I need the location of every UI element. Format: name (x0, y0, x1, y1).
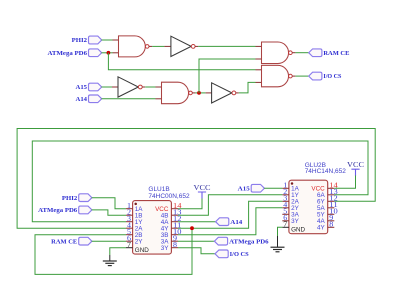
port A15 (middle) (238, 184, 265, 192)
svg-text:I/O CS: I/O CS (323, 74, 342, 80)
svg-text:RAM CE: RAM CE (323, 51, 349, 57)
svg-text:ATMega PD6: ATMega PD6 (229, 239, 269, 245)
wire U2A output to U1C input (198, 45, 255, 47)
wire net 2A to 6Y (outer loop) (17, 129, 375, 229)
wire ATMega PD6 branch to U1D input (108, 53, 255, 70)
wire U1C output to RAM CE port (295, 52, 308, 54)
ground (GLU1B) (103, 255, 117, 266)
port PHI2 (bottom) (62, 194, 92, 202)
junction on U1B output net (197, 91, 201, 95)
svg-text:PHI2: PHI2 (72, 38, 87, 44)
junction on 4Y net (190, 226, 194, 230)
NAND gate U1B (A15n, A14) (156, 82, 196, 104)
wire U2C output to U1D input (239, 82, 256, 93)
wire VCC to GLU1B pin 14 (178, 199, 202, 209)
inverter U2B (A15) (112, 77, 145, 97)
wire U1B output branch to U1C input (199, 59, 256, 93)
svg-text:3Y: 3Y (291, 218, 300, 225)
svg-text:2Y: 2Y (135, 239, 144, 246)
port I/O CS (middle) (215, 250, 249, 258)
VCC power symbol (GLU1B) (194, 183, 211, 198)
svg-text:8: 8 (173, 242, 178, 249)
svg-text:7: 7 (127, 242, 132, 249)
NAND gate U1D (I/O CS) (256, 65, 296, 87)
wire GLU1B pin 7 to ground (110, 248, 126, 255)
port ATMega PD6 (bottom) (38, 206, 92, 214)
inverter U2A (164, 36, 198, 56)
wire net 3B to GLU2B 2Y (178, 208, 282, 235)
svg-text:74HC14N,652: 74HC14N,652 (305, 168, 347, 175)
wire GLU2B pin 7 to ground (278, 227, 283, 236)
wire net 4A to A14 port (178, 221, 216, 223)
port I/O CS (top) (309, 72, 342, 80)
wire PHI2 to GLU1B pin 1 (92, 198, 126, 209)
svg-text:ATMega PD6: ATMega PD6 (48, 51, 88, 57)
port A14 (top) (76, 95, 102, 103)
wire net 3A to ATMega PD6 port (178, 240, 214, 242)
svg-text:A14: A14 (230, 220, 242, 226)
svg-text:GND: GND (135, 247, 149, 254)
wire ATMega PD6 to U1A input (102, 52, 113, 54)
VCC power symbol (GLU2B) (347, 160, 364, 176)
port ATMega PD6 (middle) (214, 237, 268, 245)
ground (GLU2B) (271, 236, 285, 252)
wire RAM CE to GLU1B pin 6 (92, 240, 126, 242)
wire A14 to U1B input (102, 98, 156, 100)
wire A15 to GLU2B pin 1 (264, 187, 282, 189)
NAND gate U1A (PHI2, PD6) (113, 36, 153, 57)
svg-text:7: 7 (283, 222, 288, 229)
inverter U2C (206, 83, 239, 103)
svg-text:A15: A15 (76, 85, 88, 91)
svg-text:I/O CS: I/O CS (230, 252, 250, 258)
wire net 4B to GLU2B 1Y (178, 195, 282, 215)
svg-text:4Y: 4Y (317, 225, 326, 232)
svg-text:A14: A14 (76, 97, 88, 103)
wire U1A output to inverter U2A (152, 45, 164, 47)
svg-text:PHI2: PHI2 (62, 196, 77, 202)
port A15 (top) (76, 83, 102, 91)
svg-text:GND: GND (291, 227, 305, 234)
wire net 4Y to GLU2B 2A (178, 201, 282, 228)
port PHI2 (top) (72, 36, 102, 44)
wire U2B output to U1B input (145, 86, 155, 88)
port RAM CE (bottom) (51, 237, 92, 245)
junction on ATMega PD6 net (107, 51, 111, 55)
svg-text:3Y: 3Y (161, 245, 170, 252)
wire net 2B to 4Y (bottom loop) (35, 228, 192, 274)
port ATMega PD6 (top) (48, 49, 102, 57)
svg-text:74HC00N,652: 74HC00N,652 (148, 193, 190, 200)
wire ATMega PD6 to GLU1B pin 2 (92, 210, 126, 215)
svg-text:VCC: VCC (347, 160, 364, 169)
svg-text:VCC: VCC (194, 183, 211, 192)
svg-text:8: 8 (329, 222, 334, 229)
svg-text:ATMega PD6: ATMega PD6 (38, 208, 77, 214)
wire VCC to GLU2B pin 14 (334, 176, 355, 189)
port A14 (middle) (216, 218, 243, 226)
IC GLU1B 74HC00N,652 (126, 186, 190, 254)
wire net 1Y to 6A (inner loop) (32, 141, 368, 222)
IC GLU2B 74HC14N,652 (282, 162, 346, 234)
port RAM CE (top) (309, 49, 350, 57)
svg-text:RAM CE: RAM CE (51, 239, 77, 245)
wire A15 to inverter U2B (102, 86, 113, 88)
wire U1D output to I/O CS port (295, 75, 308, 77)
svg-text:A15: A15 (238, 186, 250, 192)
wire PHI2 to U1A input (102, 39, 113, 41)
wire U1B output node (195, 92, 205, 94)
wire net 3Y to I/O CS port (178, 248, 215, 254)
NAND gate U1C (RAM CE) (256, 42, 296, 64)
